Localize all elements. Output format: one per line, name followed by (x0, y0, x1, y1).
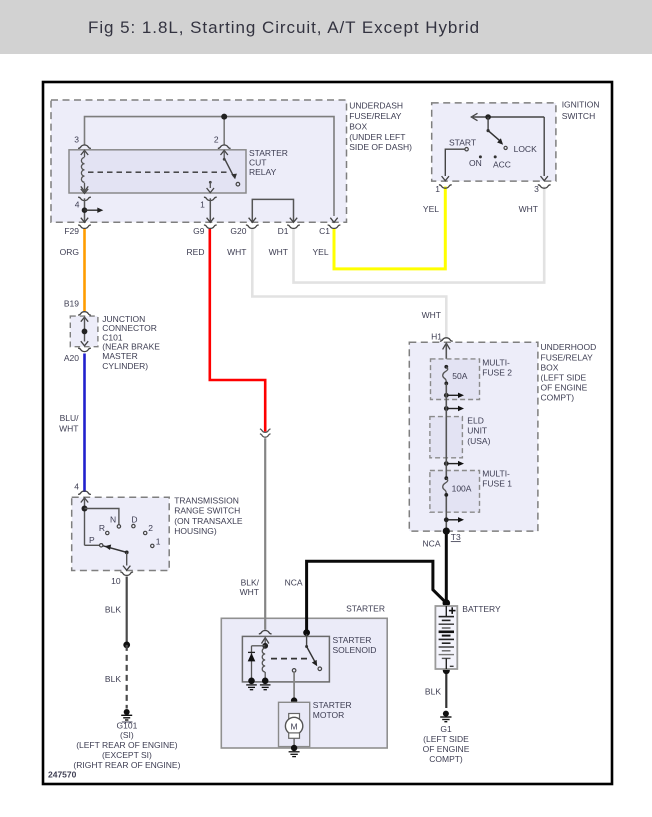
svg-text:G20: G20 (230, 226, 246, 236)
wire pin 4 to F29 (84, 198, 86, 221)
junction at starter motor (291, 697, 297, 703)
svg-text:1: 1 (200, 199, 205, 209)
feed branch arrow 3 (444, 461, 464, 466)
svg-text:CUT: CUT (249, 158, 266, 168)
svg-text:COMPT): COMPT) (429, 754, 463, 764)
wire label WHT (G20) (227, 247, 246, 257)
solenoid coil (262, 648, 265, 681)
svg-text:N: N (110, 514, 116, 524)
ground G1 label (423, 724, 470, 764)
contact P (89, 535, 103, 547)
relay switch arm (223, 158, 240, 186)
solenoid entry connector (259, 631, 272, 649)
diode D1 (solenoid) (248, 646, 266, 681)
svg-text:FUSE/RELAY: FUSE/RELAY (349, 111, 402, 121)
svg-text:C1: C1 (319, 226, 330, 236)
ignition switch box (dashed) (432, 103, 556, 181)
connector C1 (319, 218, 340, 237)
svg-text:WHT: WHT (227, 247, 246, 257)
relay mechanical link (dashed) (88, 171, 227, 173)
svg-text:UNIT: UNIT (467, 425, 487, 435)
svg-text:M: M (291, 722, 298, 732)
svg-text:247570: 247570 (48, 770, 77, 780)
node T3 (443, 528, 461, 543)
svg-text:OF ENGINE: OF ENGINE (541, 382, 588, 392)
svg-text:WHT: WHT (59, 424, 78, 434)
contact N (110, 514, 121, 528)
feed branch arrow 4 (444, 517, 464, 522)
node H1 (431, 332, 442, 342)
svg-text:ELD: ELD (467, 415, 484, 425)
starter motor ground (289, 745, 300, 757)
wire label BLK (upper) (105, 604, 121, 614)
svg-text:TRANSMISSION: TRANSMISSION (174, 495, 239, 505)
svg-text:2: 2 (148, 523, 153, 533)
svg-text:OF ENGINE: OF ENGINE (423, 744, 470, 754)
svg-text:H1: H1 (431, 332, 442, 342)
svg-text:UNDERDASH: UNDERDASH (349, 101, 403, 111)
junction connector C101 label (102, 314, 160, 371)
pin 1 connector (204, 197, 217, 200)
transmission pin 4 label (74, 482, 79, 492)
svg-text:WHT: WHT (269, 247, 288, 257)
connector A20 arc (78, 348, 91, 351)
solenoid ground (diode side) (246, 678, 257, 690)
svg-text:3: 3 (74, 135, 79, 145)
svg-text:1: 1 (156, 537, 161, 547)
connector D1 (278, 218, 300, 237)
starter cut relay U1 (69, 150, 246, 193)
diagram frame (43, 82, 612, 784)
fuse F2 50A (443, 365, 468, 385)
svg-text:YEL: YEL (423, 204, 439, 214)
svg-text:(NEAR BRAKE: (NEAR BRAKE (102, 342, 160, 352)
svg-text:MOTOR: MOTOR (313, 710, 344, 720)
transmission pin 4 connector (78, 491, 91, 503)
svg-text:IGNITION: IGNITION (562, 100, 600, 110)
underdash fuse/relay box (dashed) (51, 100, 347, 222)
relay pin 1 contact (207, 181, 214, 193)
svg-text:T3: T3 (451, 532, 461, 542)
svg-text:HOUSING): HOUSING) (174, 526, 217, 536)
pin 4 connector (78, 189, 91, 201)
transmission pin 10 connector (120, 566, 133, 576)
svg-text:4: 4 (75, 199, 80, 209)
svg-text:BLK: BLK (425, 687, 441, 697)
svg-text:STARTER: STARTER (313, 700, 352, 710)
svg-text:(LEFT SIDE: (LEFT SIDE (541, 372, 587, 382)
contact ON (469, 155, 482, 168)
ignition switch label (562, 100, 600, 121)
relay coil (81, 158, 88, 192)
inline connector red/blkwht (260, 429, 271, 437)
svg-text:RANGE SWITCH: RANGE SWITCH (174, 506, 240, 516)
svg-text:D1: D1 (278, 226, 289, 236)
node B19 (64, 299, 79, 309)
starter cut relay label (249, 148, 288, 177)
title bar (0, 0, 652, 54)
svg-text:2: 2 (214, 135, 219, 145)
svg-text:A20: A20 (64, 353, 79, 363)
starter label (346, 603, 385, 613)
pin 1 label (200, 199, 205, 209)
fuse F1 100A (443, 476, 472, 496)
wire BLK transmission pin 10 to splice (126, 577, 128, 645)
wire G20/D1 bracket (252, 199, 293, 221)
svg-text:50A: 50A (452, 371, 467, 381)
splice dot on BLK wire (123, 642, 130, 649)
ignition pin 3 riser (543, 117, 545, 176)
multi-fuse 1 label (482, 469, 512, 489)
svg-text:Fig 5: 1.8L, Starting Circuit,: Fig 5: 1.8L, Starting Circuit, A/T Excep… (88, 18, 480, 37)
node A20 (64, 353, 79, 363)
svg-text:YEL: YEL (313, 247, 329, 257)
starter solenoid label (333, 635, 377, 655)
svg-text:NCA: NCA (285, 578, 303, 588)
connector F29 (64, 218, 91, 237)
svg-text:UNDERHOOD: UNDERHOOD (541, 342, 597, 352)
junction pin 4 branch arrow (82, 207, 104, 213)
wire label YEL (ignition pin 1) (423, 204, 439, 214)
solenoid output contact (292, 669, 296, 673)
svg-text:3: 3 (534, 184, 539, 194)
svg-text:B19: B19 (64, 299, 79, 309)
figure number 247570 (48, 770, 77, 780)
svg-text:START: START (449, 138, 476, 148)
transmission internal wiring (82, 498, 119, 545)
svg-text:MULTI-: MULTI- (482, 358, 510, 368)
connector G20 (230, 218, 258, 237)
svg-text:NCA: NCA (423, 538, 441, 548)
svg-text:G9: G9 (193, 226, 205, 236)
svg-text:ON: ON (469, 158, 482, 168)
svg-text:ACC: ACC (493, 159, 511, 169)
wire label WHT (above H1) (422, 310, 441, 320)
svg-text:WHT: WHT (519, 204, 538, 214)
svg-text:STARTER: STARTER (249, 148, 288, 158)
connector B19 arc (78, 312, 91, 315)
svg-text:100A: 100A (452, 483, 472, 493)
contact ACC (493, 155, 511, 169)
svg-text:BOX: BOX (349, 121, 367, 131)
wire RED G9 to inline connector (210, 228, 265, 432)
svg-text:MASTER: MASTER (102, 351, 137, 361)
junction top bus / pin 2 (221, 114, 227, 120)
wire underdash top bus (85, 117, 335, 216)
svg-text:MULTI-: MULTI- (482, 469, 510, 479)
wire BLK dashed splice to G101 (126, 645, 128, 709)
svg-text:SOLENOID: SOLENOID (333, 645, 377, 655)
underhood main feed wire (lower segments) (445, 383, 447, 531)
svg-text:BOX: BOX (541, 362, 559, 372)
svg-text:BLU/: BLU/ (60, 413, 80, 423)
ELD unit box (430, 417, 463, 458)
multi-fuse 1 box (430, 471, 480, 513)
solenoid coil junction (262, 643, 268, 649)
svg-text:WHT: WHT (240, 587, 259, 597)
svg-text:R: R (99, 523, 105, 533)
svg-text:RELAY: RELAY (249, 167, 277, 177)
wire label WHT (ignition pin 3) (519, 204, 538, 214)
starter motor label (313, 700, 352, 720)
wire BLU/WHT A20 to transmission pin 4 (83, 354, 86, 493)
svg-text:BATTERY: BATTERY (462, 604, 501, 614)
ignition pin 1 connector (435, 176, 451, 194)
wire label BLK (lower) (105, 674, 121, 684)
wire WHT D1 to ignition pin 3 (294, 187, 545, 283)
contact D (131, 515, 137, 528)
svg-text:STARTER: STARTER (346, 603, 385, 613)
starter motor M (285, 714, 302, 749)
svg-text:FUSE 1: FUSE 1 (482, 479, 512, 489)
pin 2 label (214, 135, 219, 145)
svg-text:(UNDER LEFT: (UNDER LEFT (349, 132, 405, 142)
wire WHT G20 to H1 (252, 228, 446, 339)
junction ignition rotor pivot (485, 114, 491, 132)
starter motor box (279, 702, 310, 746)
svg-text:WHT: WHT (422, 310, 441, 320)
svg-text:(SI): (SI) (120, 730, 134, 740)
svg-text:LOCK: LOCK (514, 144, 537, 154)
junction battery positive (443, 599, 451, 607)
underdash box label (349, 101, 412, 153)
svg-text:CYLINDER): CYLINDER) (102, 361, 148, 371)
contact 2 (144, 523, 154, 535)
svg-text:FUSE 2: FUSE 2 (482, 368, 512, 378)
wire label WHT (D1) (269, 247, 288, 257)
wire ORG F29 to B19 (83, 228, 86, 311)
ignition rotor arm toward LOCK (488, 131, 503, 145)
feed branch arrow 2 (444, 406, 464, 411)
svg-text:(LEFT REAR OF ENGINE): (LEFT REAR OF ENGINE) (76, 740, 178, 750)
C101 internal wire (81, 317, 88, 346)
starter box (221, 618, 387, 748)
junction battery negative (443, 667, 450, 674)
solenoid switch arm (305, 634, 322, 671)
battery (435, 606, 457, 669)
underhood main feed wire (upper) (443, 343, 450, 367)
svg-text:4: 4 (74, 482, 79, 492)
svg-text:G101: G101 (117, 720, 138, 730)
svg-text:G1: G1 (440, 724, 452, 734)
pin 3 connector (78, 145, 91, 157)
battery label (462, 604, 501, 614)
wire label RED (187, 247, 205, 257)
wire label YEL (313, 247, 329, 257)
multi-fuse 2 label (482, 358, 512, 378)
svg-text:1: 1 (435, 184, 440, 194)
svg-text:BLK: BLK (105, 674, 121, 684)
svg-text:D: D (131, 515, 137, 525)
wire label BLK/WHT (240, 578, 260, 598)
svg-text:P: P (89, 535, 95, 545)
svg-text:BLK: BLK (105, 604, 121, 614)
wire relay pin 2 riser (223, 117, 225, 145)
wire label BLU/WHT (59, 413, 79, 434)
junction connector C101 box (70, 316, 98, 347)
ground G101 label (73, 720, 180, 770)
wire NCA branch battery to starter solenoid (307, 561, 447, 632)
wire solenoid output to motor (293, 672, 295, 713)
svg-text:SIDE OF DASH): SIDE OF DASH) (349, 142, 412, 152)
transmission range switch box (dashed) (72, 497, 170, 570)
wire pin 1 to G9 (209, 198, 211, 221)
transmission pin 10 label (111, 576, 121, 586)
contact LOCK (504, 144, 537, 154)
feed branch arrow 1 (444, 393, 464, 398)
svg-text:BLK/: BLK/ (241, 578, 260, 588)
wire label NCA (at starter) (285, 578, 303, 588)
svg-text:(LEFT SIDE: (LEFT SIDE (423, 734, 469, 744)
svg-text:(EXCEPT SI): (EXCEPT SI) (102, 750, 152, 760)
wire label BLK (battery) (425, 687, 441, 697)
svg-text:COMPT): COMPT) (541, 393, 575, 403)
svg-text:(USA): (USA) (467, 436, 490, 446)
ground G101 (121, 709, 132, 722)
wire NCA T3 to battery positive (445, 531, 448, 603)
starter solenoid box (242, 636, 329, 682)
wire BLK/WHT inline connector to starter solenoid (264, 438, 266, 630)
svg-text:RED: RED (187, 247, 205, 257)
svg-text:(ON TRANSAXLE: (ON TRANSAXLE (174, 516, 243, 526)
transmission switch arm (103, 545, 129, 566)
ignition pin 3 connector (534, 176, 551, 194)
solenoid mechanical link (dashed) (271, 658, 311, 660)
wire label ORG (60, 247, 79, 257)
connector G9 (193, 218, 217, 237)
svg-text:(RIGHT REAR OF ENGINE): (RIGHT REAR OF ENGINE) (73, 760, 180, 770)
svg-text:SWITCH: SWITCH (562, 111, 596, 121)
underhood fuse/relay box (dashed) (409, 342, 538, 531)
pin 2 connector (218, 145, 231, 158)
ignition internal bus (471, 113, 544, 120)
svg-text:FUSE/RELAY: FUSE/RELAY (541, 352, 594, 362)
contact R (99, 523, 109, 535)
svg-text:F29: F29 (64, 226, 79, 236)
pin 3 label (74, 135, 79, 145)
svg-text:10: 10 (111, 576, 121, 586)
wire BLK battery to G1 (445, 671, 447, 708)
wire YEL C1 to ignition pin 1 (334, 187, 445, 269)
contact START and wire to pin 1 (445, 138, 476, 176)
contact 1 (151, 537, 161, 548)
wire label NCA (at T3) (423, 538, 441, 548)
svg-text:ORG: ORG (60, 247, 79, 257)
solenoid ground (coil side) (260, 678, 271, 690)
multi-fuse 2 box (431, 359, 480, 400)
connector H1 arc (440, 338, 453, 341)
junction NCA at solenoid (303, 629, 310, 636)
svg-text:STARTER: STARTER (333, 635, 372, 645)
pin 4 label (75, 199, 80, 209)
ELD unit label (467, 415, 490, 446)
underhood box label (541, 342, 597, 402)
transmission range switch label (174, 495, 243, 536)
ground G1 (440, 711, 451, 722)
